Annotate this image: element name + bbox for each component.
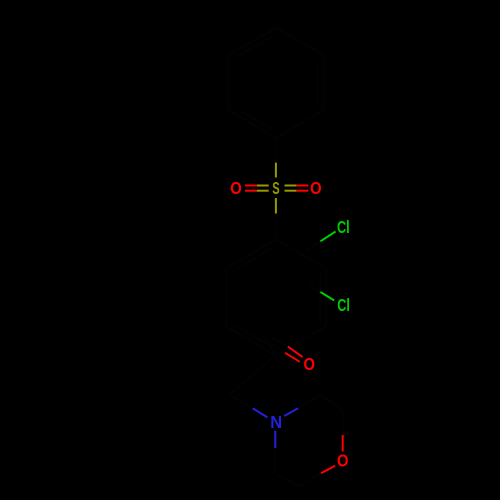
bond S to ring2 (sulfur half, olive)	[275, 198, 277, 214]
svg-text:O: O	[337, 450, 349, 470]
bond carbonyl carbon to ring (dark)	[264, 336, 276, 356]
C=O double bond (oxygen halves, red)	[288, 347, 303, 358]
benzene ring 1 (top phenyl, carbon skeleton, near-black)	[228, 28, 323, 138]
S=O left double bond, olive halves	[257, 185, 269, 187]
morpholine: bond N-C1 (nitrogen half, blue)	[284, 408, 298, 416]
benzene ring 2 (dichlorophenyl, carbon skeleton, near-black)	[226, 239, 326, 355]
bond S to ring2 (carbon half, dark)	[275, 214, 277, 240]
morpholine: bond C2-O (carbon half, dark)	[342, 410, 344, 435]
svg-text:Cl: Cl	[337, 295, 350, 315]
bond CH2 to N (carbon half, dark)	[229, 395, 253, 409]
bond ring1 to S (sulfur half, olive)	[275, 163, 277, 178]
svg-text:O: O	[304, 354, 316, 374]
S=O right double bond, olive halves	[285, 185, 297, 187]
svg-text:S: S	[272, 178, 279, 198]
morpholine: bond C2-O (oxygen half, red)	[342, 435, 344, 452]
bond ring1 to S (carbon half, dark)	[275, 138, 277, 163]
S=O left double bond, red halves	[245, 185, 257, 187]
bond C-Cl lower (carbon half, dark)	[307, 284, 321, 292]
morpholine: bond C4-N (nitrogen half, blue)	[274, 431, 276, 448]
C=O double bond (carbon halves, dark)	[273, 337, 288, 346]
morpholine: bond O-C3 (oxygen half, red)	[321, 466, 335, 474]
svg-text:O: O	[310, 178, 322, 198]
morpholine: bond C1-C2 (dark)	[320, 395, 343, 410]
bond C-Cl upper (chlorine half, green)	[320, 232, 335, 242]
svg-text:Cl: Cl	[337, 217, 350, 237]
bond C-Cl upper (carbon half, dark)	[305, 241, 320, 251]
bond CH2 to N (nitrogen half, blue)	[253, 408, 268, 417]
svg-text:N: N	[270, 412, 282, 432]
morpholine: bond N-C1 (carbon half, dark)	[298, 395, 320, 409]
bond ring2 bottom to CH2 (dark)	[229, 355, 276, 394]
morpholine: bond O-C3 (carbon half, dark)	[299, 473, 321, 486]
bond C-Cl lower (chlorine half, green)	[320, 292, 334, 300]
svg-text:O: O	[230, 178, 242, 198]
morpholine: bond C3-C4 (dark)	[275, 474, 300, 486]
S=O right double bond, red halves	[296, 185, 308, 187]
morpholine: bond C4-N (carbon half, dark)	[274, 448, 276, 474]
